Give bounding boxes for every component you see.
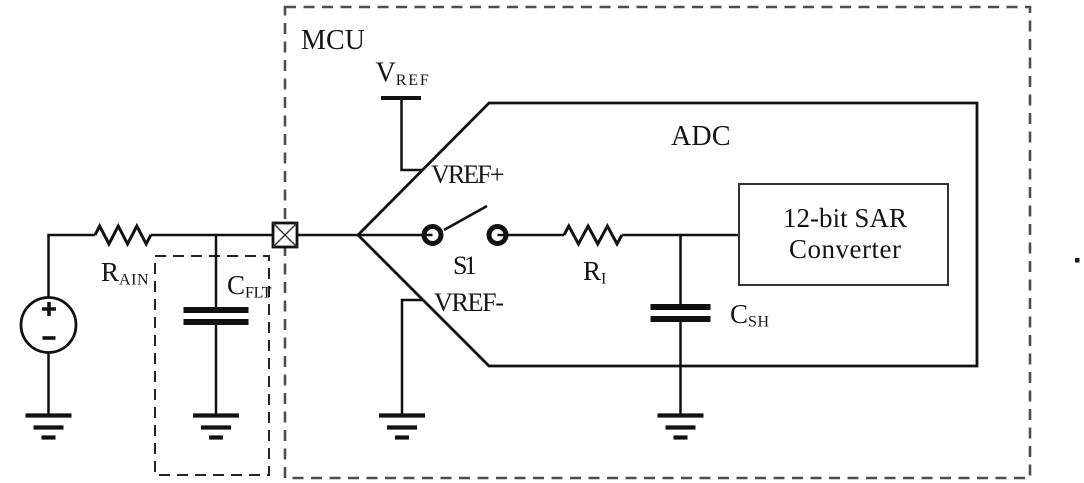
wire VREF- stub	[402, 300, 423, 415]
svg-text:S1: S1	[453, 251, 477, 280]
wire CFLT branch top	[215, 235, 218, 307]
12-bit SAR Converter block U1	[739, 184, 948, 285]
wire RI to SAR converter	[622, 234, 739, 237]
svg-text:VREF: VREF	[376, 58, 429, 90]
ground CFLT	[193, 416, 239, 438]
svg-text:MCU: MCU	[301, 25, 365, 56]
wire source to RAIN	[47, 234, 95, 237]
svg-text:12-bit SAR: 12-bit SAR	[783, 203, 907, 233]
capacitor CFLT	[184, 310, 249, 322]
wire source top vertical	[47, 235, 50, 298]
wire CSH branch top	[679, 235, 682, 304]
svg-text:Converter: Converter	[789, 234, 901, 264]
voltage source V1	[21, 298, 76, 353]
svg-text:VREF-: VREF-	[434, 288, 504, 317]
ground VREF-	[379, 416, 425, 438]
wire RAIN to pin	[151, 234, 273, 237]
svg-text:VREF+: VREF+	[431, 160, 505, 189]
svg-text:CSH: CSH	[730, 299, 769, 331]
wire pin to ADC input node	[297, 234, 433, 237]
CFLT boundary (dashed box)	[155, 256, 269, 475]
label 12-bit SAR Converter	[783, 203, 907, 264]
wire CFLT bottom	[215, 325, 218, 415]
switch S1	[424, 206, 506, 244]
capacitor CSH	[651, 307, 711, 319]
pin (crossed box)	[273, 223, 297, 247]
stray period mark	[1075, 258, 1080, 263]
wire source bottom vertical	[47, 353, 50, 416]
ground source	[26, 416, 72, 438]
MCU boundary (dashed box)	[285, 7, 1030, 478]
ground CSH	[658, 416, 704, 438]
resistor RAIN	[95, 226, 151, 244]
svg-text:CFLT: CFLT	[227, 270, 272, 302]
wire S1 to RI	[498, 234, 565, 237]
resistor RI	[564, 226, 622, 244]
wire VREF bar to VREF+ pin	[402, 100, 424, 170]
svg-text:ADC: ADC	[671, 121, 731, 152]
wire CSH bottom	[679, 322, 682, 415]
op-amp style ADC block outline	[358, 103, 977, 366]
VREF supply bar	[381, 96, 421, 100]
svg-text:RI: RI	[583, 256, 606, 288]
svg-text:RAIN: RAIN	[101, 257, 149, 289]
